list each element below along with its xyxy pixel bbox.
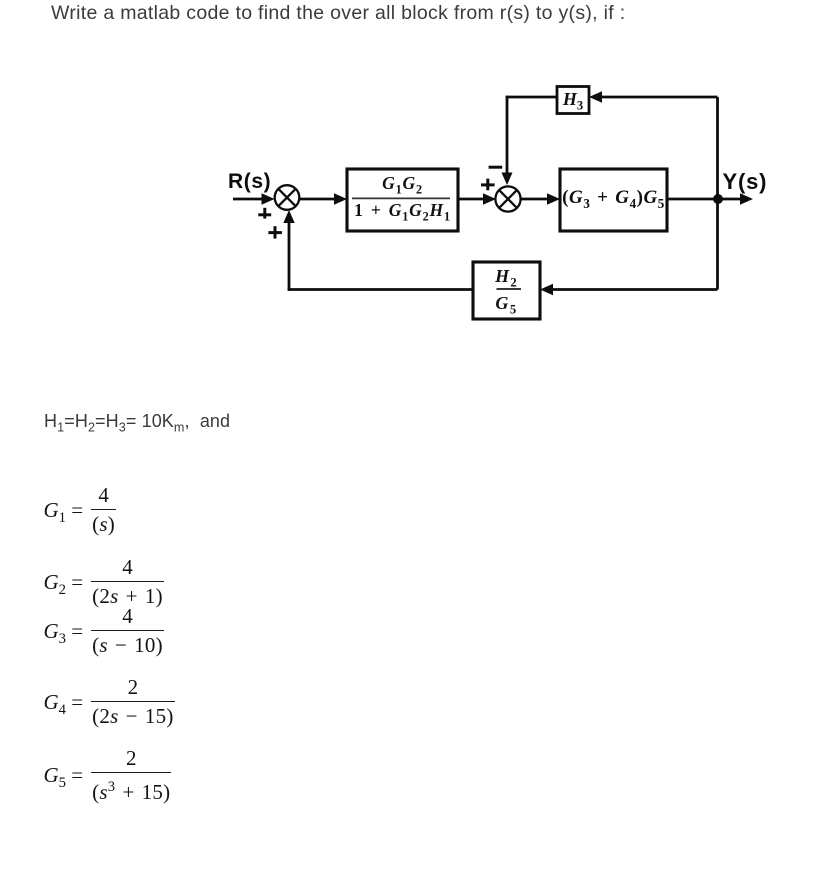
arrowhead into S2 <box>483 193 496 204</box>
arrowhead into S1 <box>262 193 275 204</box>
block diagram drawing <box>0 0 828 360</box>
sign + at S1 input <box>258 213 271 216</box>
block (G3+G4)G5 box <box>560 169 667 231</box>
wire block (G3+G4)G5 to output Y(s) <box>667 198 742 201</box>
block H2/G5 box <box>473 262 540 319</box>
block H2/G5 denominator G5 <box>473 293 540 318</box>
wire top feedback horizontal into H3 <box>600 96 718 99</box>
block H2/G5 numerator H2 <box>473 266 540 291</box>
arrowhead into H3 <box>589 91 602 102</box>
block H3 label <box>557 89 589 114</box>
title text <box>51 2 625 25</box>
sign + at S2 left <box>481 183 495 186</box>
wire vertical up into S1 <box>288 220 291 291</box>
summing junction S1 <box>275 185 300 210</box>
wire bottom feedback horizontal into H2/G5 <box>551 288 718 291</box>
block G1G2 denominator <box>347 200 458 225</box>
wire H3 output to corner <box>506 96 557 99</box>
block (G3+G4)G5 label <box>560 187 667 212</box>
block H3 box <box>557 87 589 114</box>
wire H2/G5 output to left corner <box>288 288 473 291</box>
block G1G2/(1+G1G2H1) box <box>347 169 458 231</box>
label R(s) <box>228 170 271 194</box>
arrowhead into block G1G2 <box>334 193 347 204</box>
wire vertical down into S2 <box>506 96 509 175</box>
summing junction S2 <box>495 186 520 211</box>
arrowhead into H2/G5 <box>540 284 553 295</box>
arrowhead output Y(s) <box>740 193 753 204</box>
sign - at S2 top <box>489 166 503 169</box>
equation G3 = 4/(s-10) <box>44 602 164 659</box>
wire vertical right branch from node to top and bottom feedback <box>716 97 719 290</box>
arrowhead down into S2 <box>502 173 513 186</box>
wire S2 to block (G3+G4)G5 <box>520 198 550 201</box>
equation G4 = 2/(2s-15) <box>44 673 175 730</box>
arrowhead into block (G3+G4)G5 <box>547 193 560 204</box>
sign + at S1 bottom feedback <box>268 231 282 234</box>
equation G5 = 2/(s^3+15) <box>44 744 172 806</box>
arrowhead up into S1 <box>283 210 294 223</box>
block G1G2 numerator <box>347 173 458 198</box>
node dot at output <box>713 194 723 204</box>
equation G2 = 4/(2s+1) <box>44 553 164 610</box>
equation G1 = 4/(s) <box>44 481 117 538</box>
fraction bar in block G1G2 <box>352 197 450 199</box>
wire S1 to block G1G2 <box>300 198 337 201</box>
wire block G1G2 to summing junction S2 <box>458 198 486 201</box>
label Y(s) <box>723 169 768 195</box>
fraction bar in block H2/G5 <box>497 288 522 290</box>
wire input R(s) to summing junction S1 <box>233 198 264 201</box>
text H1=H2=H3=10Km, and <box>44 411 230 435</box>
